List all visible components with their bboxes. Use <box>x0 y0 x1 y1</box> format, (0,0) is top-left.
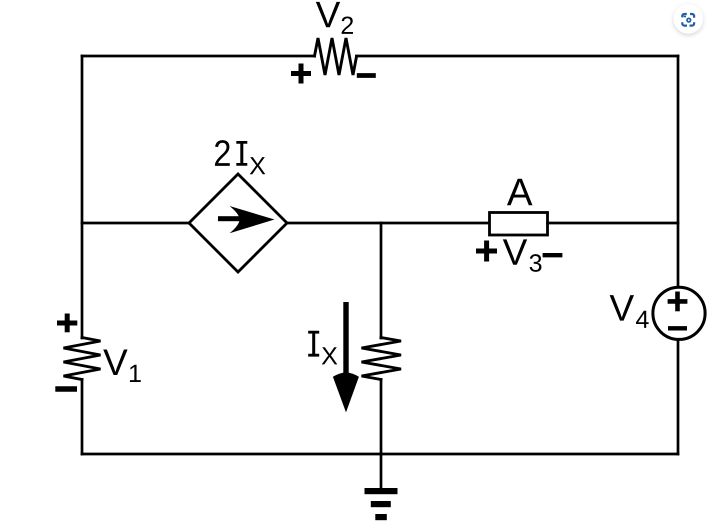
wire left rail upper <box>81 56 84 338</box>
ground <box>365 488 398 520</box>
wire middle vertical upper <box>380 223 383 338</box>
label V2 subscript 2 <box>342 16 353 33</box>
dependent current source 2Ix diamond <box>189 174 287 272</box>
label V4 letter V <box>610 295 634 320</box>
wire middle vertical lower <box>380 380 383 455</box>
voltage source V4 circle <box>653 287 705 339</box>
resistor V1 <box>64 338 101 380</box>
plus sign V3 <box>476 241 497 262</box>
resistor Ix <box>362 338 402 380</box>
minus sign inside V4 <box>668 326 687 330</box>
plus sign inside V4 <box>668 292 688 312</box>
resistor A box <box>490 213 548 236</box>
label 2Ix subscript X <box>250 157 266 174</box>
label A <box>507 179 533 205</box>
label V2 letter V <box>316 2 340 27</box>
label Ix subscript X <box>322 347 338 364</box>
wire box A to right rail <box>548 222 679 225</box>
minus sign V3 <box>543 253 563 257</box>
current source arrow <box>218 206 275 233</box>
wire left rail lower <box>81 380 84 455</box>
wire diamond to box A <box>287 222 490 225</box>
screenshot icon <box>674 4 704 34</box>
label V1 letter V <box>103 350 127 375</box>
label 2Ix digit 2 <box>215 140 230 166</box>
wire right rail upper <box>677 56 680 288</box>
wire middle left segment <box>82 222 189 225</box>
minus sign V2 <box>357 73 376 78</box>
resistor V2 <box>315 38 357 75</box>
plus sign V2 <box>291 64 311 84</box>
label V3 subscript 3 <box>530 254 542 272</box>
minus sign V1 <box>55 386 77 391</box>
wire top-right segment <box>357 55 679 58</box>
wire top-left segment <box>82 55 315 58</box>
current arrow Ix <box>333 302 359 412</box>
label 2Ix letter I <box>236 141 247 166</box>
label V1 subscript 1 <box>130 365 141 382</box>
label V4 subscript 4 <box>636 311 649 328</box>
wire bottom rail <box>82 453 678 456</box>
label V3 letter V <box>503 239 527 264</box>
wire ground stub <box>380 454 383 489</box>
plus sign V1 <box>57 314 77 333</box>
label Ix letter I <box>308 331 319 357</box>
wire right rail lower <box>677 340 680 454</box>
